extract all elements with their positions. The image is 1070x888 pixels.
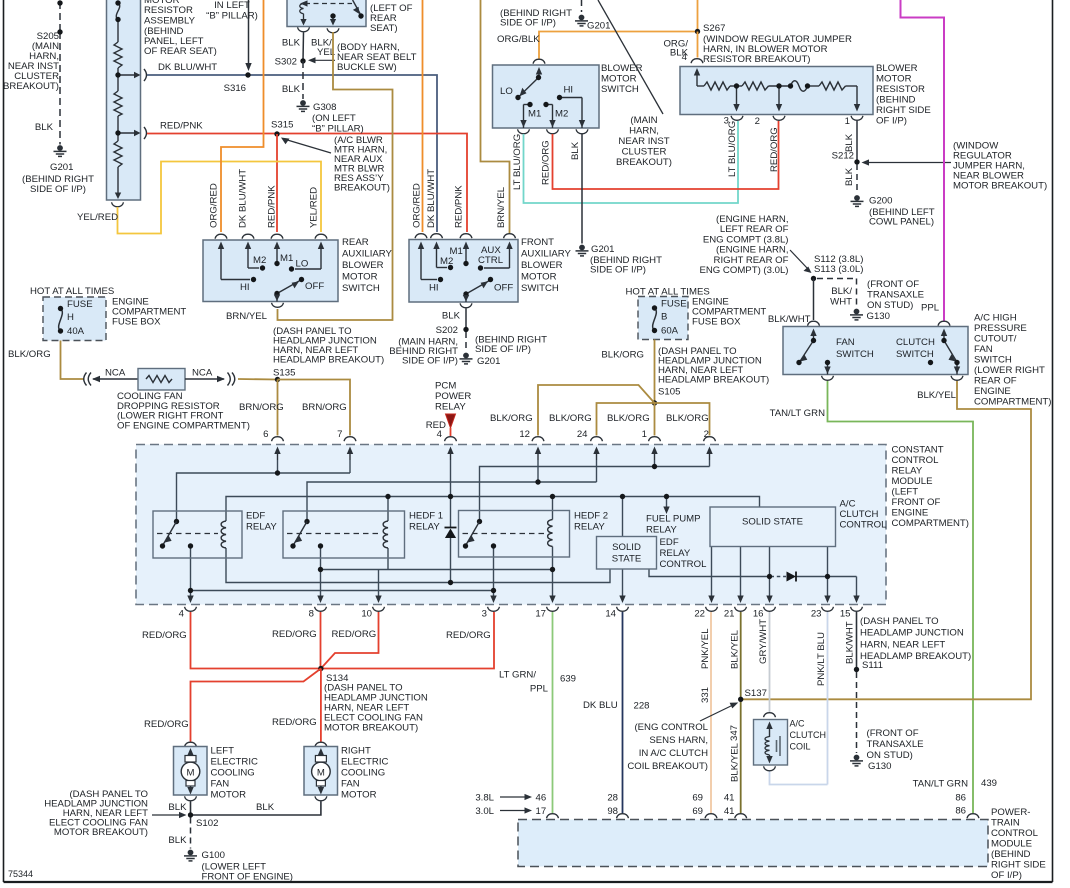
svg-text:BLK/WHT: BLK/WHT: [845, 621, 856, 664]
aux blower relay internals: [305, 3, 352, 5]
wire ORG/RED to front switch: [422, 0, 424, 232]
svg-text:MOTOR: MOTOR: [211, 790, 247, 801]
svg-text:OF REAR SEAT): OF REAR SEAT): [144, 46, 217, 57]
wire PNK/YEL pin 22 to PCM: [710, 612, 712, 813]
wire BLK dashed to G308: [302, 61, 304, 99]
svg-text:RIGHT SIDE: RIGHT SIDE: [876, 105, 931, 116]
fan switch internals: [801, 334, 958, 375]
svg-text:S202: S202: [436, 325, 458, 336]
svg-text:SWITCH: SWITCH: [521, 283, 559, 294]
svg-text:HEADLAMP JUNCTION: HEADLAMP JUNCTION: [860, 628, 964, 639]
svg-text:G201: G201: [50, 162, 73, 173]
fuse box B (engine compartment fuse box): [638, 297, 688, 340]
svg-text:OFF: OFF: [305, 281, 324, 292]
svg-text:M1: M1: [280, 253, 293, 264]
svg-text:4: 4: [437, 429, 443, 440]
ground G100: [184, 850, 197, 861]
front switch bottom cup: [460, 303, 472, 308]
wire BLK/WHT S112 to fan switch: [813, 279, 815, 321]
svg-text:BLK: BLK: [168, 835, 187, 846]
wire BLK/YEL BRN/YEL from aux relay to rear switch: [278, 32, 393, 320]
wire RED/ORG pin 8: [320, 612, 322, 669]
constant control relay module CCRM dashed box: [136, 445, 886, 605]
svg-text:ELECTRIC: ELECTRIC: [211, 757, 259, 768]
ground G201 dashed stub top: [581, 0, 583, 12]
svg-text:COMPARTMENT): COMPARTMENT): [974, 397, 1051, 408]
svg-text:46: 46: [536, 793, 547, 804]
svg-text:BLOWER: BLOWER: [342, 260, 384, 271]
front auxiliary blower motor switch box: [409, 240, 518, 303]
svg-text:BLK: BLK: [256, 802, 275, 813]
svg-text:CTRL: CTRL: [478, 255, 504, 266]
svg-text:S137: S137: [745, 688, 767, 699]
svg-text:WHT: WHT: [830, 297, 852, 308]
svg-text:BLK/: BLK/: [831, 286, 852, 297]
svg-text:RELAY: RELAY: [646, 525, 677, 536]
svg-text:S135: S135: [273, 368, 295, 379]
svg-text:STATE: STATE: [612, 554, 642, 565]
svg-text:YEL/RED: YEL/RED: [309, 187, 320, 228]
svg-text:17: 17: [536, 806, 547, 817]
svg-text:HEADLAMP BREAKOUT): HEADLAMP BREAKOUT): [658, 375, 769, 386]
rear switch bottom cup: [272, 303, 284, 308]
svg-text:HOT AT ALL TIMES: HOT AT ALL TIMES: [30, 286, 114, 297]
svg-text:OF ENGINE COMPARTMENT): OF ENGINE COMPARTMENT): [117, 420, 250, 431]
svg-text:PPL: PPL: [530, 684, 549, 695]
wire RED/PNK drop to rear switch: [276, 134, 278, 232]
svg-text:CONTROL: CONTROL: [840, 520, 888, 531]
svg-text:RELAY: RELAY: [892, 466, 923, 477]
svg-text:86: 86: [955, 793, 966, 804]
small solid state box EDF relay control: [597, 537, 657, 570]
svg-text:RELAY: RELAY: [246, 522, 277, 533]
svg-text:A/C: A/C: [840, 499, 856, 510]
svg-text:M1: M1: [528, 109, 541, 120]
node S267: [695, 29, 700, 34]
wire BLK/ORG to pin 24: [597, 403, 655, 436]
svg-text:A/C HIGH: A/C HIGH: [974, 313, 1017, 324]
svg-text:LT GRN/: LT GRN/: [499, 670, 536, 681]
svg-text:LT BLU/ORG: LT BLU/ORG: [727, 121, 738, 177]
svg-text:TRANSAXLE: TRANSAXLE: [867, 739, 924, 750]
svg-text:SIDE OF I/P): SIDE OF I/P): [500, 18, 556, 29]
svg-text:S267: S267: [703, 23, 725, 34]
svg-text:MOTOR BREAKOUT): MOTOR BREAKOUT): [324, 723, 418, 734]
svg-text:SIDE OF I/P): SIDE OF I/P): [590, 265, 646, 276]
svg-text:ASSEMBLY: ASSEMBLY: [144, 16, 196, 27]
wire diode branch: [450, 497, 452, 528]
svg-text:CONTROL: CONTROL: [660, 559, 708, 570]
wire HEDF1 coil riser: [387, 497, 389, 522]
border frame bottom edge: [4, 881, 1053, 883]
fuel pump relay arrow: [663, 507, 669, 515]
svg-text:RELAY: RELAY: [409, 522, 440, 533]
svg-text:BLK/ORG: BLK/ORG: [8, 349, 51, 360]
leader arrow to S102: [152, 814, 182, 816]
svg-text:LO: LO: [296, 259, 309, 270]
svg-text:EDF: EDF: [246, 511, 265, 522]
svg-text:PPL: PPL: [921, 303, 940, 314]
svg-text:YEL/RED: YEL/RED: [77, 212, 118, 223]
svg-text:3.8L: 3.8L: [475, 793, 494, 804]
svg-text:“B” PILLAR): “B” PILLAR): [312, 124, 364, 135]
svg-text:FAN: FAN: [341, 779, 360, 790]
ground G130 (bottom): [850, 755, 863, 766]
svg-text:86: 86: [955, 806, 966, 817]
wire HEDF2 coil riser: [552, 497, 554, 520]
svg-text:REAR: REAR: [342, 237, 369, 248]
svg-text:BUCKLE SW): BUCKLE SW): [337, 62, 397, 73]
wire RED/PNK: [147, 134, 467, 233]
svg-text:FUSE: FUSE: [67, 299, 93, 310]
svg-text:BLK/YEL: BLK/YEL: [730, 742, 741, 782]
svg-text:MODULE: MODULE: [991, 839, 1032, 850]
svg-text:HEADLAMP BREAKOUT): HEADLAMP BREAKOUT): [860, 651, 971, 662]
fuse H symbol: [59, 309, 63, 332]
svg-text:(ON LEFT: (ON LEFT: [312, 113, 356, 124]
wire BLK/ORG to pin 2: [655, 403, 710, 436]
svg-text:228: 228: [634, 701, 650, 712]
svg-text:BLK/ORG: BLK/ORG: [549, 413, 592, 424]
wire DK BLU pin 14 to PCM: [622, 612, 624, 813]
wire dashed to G130: [856, 672, 858, 753]
svg-text:HARN,: HARN,: [629, 126, 659, 137]
svg-text:IN A/C CLUTCH: IN A/C CLUTCH: [639, 748, 708, 759]
svg-text:ELECTRIC: ELECTRIC: [341, 757, 389, 768]
fan switch top cups: [808, 321, 820, 326]
motor resistor assembly box: [107, 0, 141, 200]
svg-text:BLK/ORG: BLK/ORG: [607, 413, 650, 424]
wire S205 harness dashed BLK: [59, 2, 61, 145]
svg-text:CLUSTER: CLUSTER: [622, 147, 667, 158]
wire BLK/ORG to pin 1: [654, 403, 656, 436]
svg-text:MOTOR BREAKOUT): MOTOR BREAKOUT): [953, 181, 1047, 192]
svg-text:BREAKOUT): BREAKOUT): [616, 157, 672, 168]
svg-text:BLK: BLK: [282, 84, 301, 95]
svg-text:(LOWER RIGHT: (LOWER RIGHT: [974, 365, 1045, 376]
svg-text:41: 41: [724, 806, 735, 817]
svg-text:COIL BREAKOUT): COIL BREAKOUT): [627, 761, 708, 772]
wire to S135: [238, 378, 278, 381]
wire EDF output to pin 4: [190, 546, 192, 598]
svg-text:HEDF 2: HEDF 2: [574, 511, 608, 522]
wire GRY/WHT pin 16 to clutch coil: [769, 612, 771, 712]
svg-text:CONTROL: CONTROL: [991, 828, 1039, 839]
ground G200: [851, 195, 864, 206]
svg-text:RED/ORG: RED/ORG: [332, 629, 377, 640]
svg-text:347: 347: [729, 725, 740, 741]
svg-text:COOLING: COOLING: [211, 768, 255, 779]
inline connector ((: [84, 373, 91, 386]
svg-text:RED/ORG: RED/ORG: [142, 630, 187, 641]
svg-text:EDF: EDF: [660, 537, 679, 548]
wire BRN/YEL to front aux ctrl: [481, 0, 510, 233]
svg-text:G100: G100: [202, 850, 225, 861]
svg-text:PCM: PCM: [435, 381, 456, 392]
svg-text:OF I/P): OF I/P): [876, 116, 907, 127]
svg-text:(LEFT: (LEFT: [892, 487, 919, 498]
wire TAN/LT GRN from fan switch: [828, 381, 974, 813]
svg-text:3.0L: 3.0L: [475, 806, 494, 817]
wire PNK/LT BLU pin 23: [827, 612, 829, 785]
wire small solid state to diode bus: [649, 569, 770, 577]
svg-text:COWL PANEL): COWL PANEL): [869, 217, 934, 228]
inline connector )): [228, 373, 235, 386]
svg-text:AUXILIARY: AUXILIARY: [521, 249, 572, 260]
svg-text:PNK/LT BLU: PNK/LT BLU: [816, 632, 827, 686]
svg-text:GRY/WHT: GRY/WHT: [758, 619, 769, 664]
svg-text:69: 69: [692, 806, 703, 817]
svg-text:7: 7: [337, 429, 342, 440]
wire BLK/WHT pin 15 to S111: [856, 612, 858, 668]
svg-text:MODULE: MODULE: [892, 476, 933, 487]
wire RED/ORG S134 to right motor: [320, 669, 322, 742]
svg-text:ORG/RED: ORG/RED: [209, 183, 220, 228]
svg-text:SWITCH: SWITCH: [974, 355, 1012, 366]
svg-text:BLK/YEL: BLK/YEL: [917, 390, 957, 401]
svg-text:POWER: POWER: [435, 391, 471, 402]
rear switch internals: [221, 247, 321, 302]
wire bus pin8 pin10 HEDF2 coil: [321, 569, 553, 571]
svg-text:8: 8: [309, 609, 314, 620]
svg-text:41: 41: [724, 793, 735, 804]
svg-text:RESISTOR BREAKOUT): RESISTOR BREAKOUT): [703, 54, 811, 65]
HEDF2 relay box: [459, 511, 570, 558]
svg-text:M: M: [317, 768, 325, 779]
wire BLK dashed to G100: [190, 818, 192, 849]
wire ORG/BLK S267 to resistor pin 4: [697, 32, 699, 58]
svg-text:BLK/ORG: BLK/ORG: [666, 413, 709, 424]
svg-text:BLK: BLK: [168, 802, 187, 813]
blower motor switch box: [493, 65, 600, 128]
svg-text:BLK: BLK: [844, 133, 855, 152]
node S105: [652, 400, 657, 405]
HEDF1 relay box: [283, 511, 405, 558]
svg-text:G130: G130: [867, 311, 890, 322]
svg-text:ON STUD): ON STUD): [867, 300, 913, 311]
svg-text:HARN, NEAR LEFT: HARN, NEAR LEFT: [860, 639, 945, 650]
svg-text:MOTOR BREAKOUT): MOTOR BREAKOUT): [54, 827, 148, 838]
svg-text:17: 17: [535, 609, 546, 620]
leader to S302: [312, 59, 335, 61]
wire HEDF1 output to pin 8: [320, 546, 322, 598]
svg-text:CLUTCH: CLUTCH: [896, 337, 935, 348]
svg-text:G200: G200: [869, 196, 892, 207]
svg-text:DK BLU/WHT: DK BLU/WHT: [238, 169, 249, 228]
svg-text:RED/ORG: RED/ORG: [446, 630, 491, 641]
svg-text:MOTOR: MOTOR: [521, 272, 557, 283]
svg-text:23: 23: [811, 609, 822, 620]
wire pin 10 drop: [378, 570, 380, 599]
wire RED/ORG resistor pin2: [553, 121, 779, 189]
svg-text:CLUTCH: CLUTCH: [840, 509, 879, 520]
wire BLK to S302: [302, 33, 305, 62]
svg-text:4: 4: [179, 609, 185, 620]
svg-text:OFF: OFF: [494, 283, 513, 294]
svg-text:24: 24: [577, 429, 588, 440]
svg-text:TAN/LT GRN: TAN/LT GRN: [770, 408, 826, 419]
svg-text:BREAKOUT): BREAKOUT): [3, 81, 59, 92]
rear switch pin cups: [215, 234, 227, 239]
node S137: [738, 697, 743, 702]
svg-text:S105: S105: [658, 387, 680, 398]
wire pins 1 2 bus to HEDF2 pivot: [654, 460, 656, 467]
svg-text:BLK/YEL: BLK/YEL: [730, 629, 741, 669]
svg-text:DK BLU: DK BLU: [583, 700, 618, 711]
svg-text:SWITCH: SWITCH: [896, 349, 934, 360]
svg-text:FAN: FAN: [974, 344, 993, 355]
node S202: [463, 327, 468, 332]
wire BLK/YEL from clutch switch to S137: [741, 381, 1031, 699]
svg-text:ENGINE: ENGINE: [892, 508, 929, 519]
svg-text:ORG/RED: ORG/RED: [412, 183, 423, 228]
svg-text:G201: G201: [587, 21, 610, 32]
svg-text:6: 6: [263, 429, 268, 440]
svg-text:BLOWER: BLOWER: [521, 260, 563, 271]
svg-text:PNK/YEL: PNK/YEL: [700, 628, 711, 669]
leader to S212: [866, 162, 951, 164]
blower motor resistor internals: [697, 73, 857, 106]
svg-text:BLK: BLK: [282, 38, 301, 49]
svg-text:NCA: NCA: [105, 368, 126, 379]
rear auxiliary blower motor switch box: [203, 240, 338, 302]
wire pin 15 branch: [828, 576, 857, 578]
svg-text:S315: S315: [271, 120, 293, 131]
svg-text:15: 15: [840, 609, 851, 620]
blower motor resistor box: [680, 67, 873, 115]
wire DK BLU/WHT: [147, 75, 437, 232]
svg-text:BRN/ORG: BRN/ORG: [302, 402, 347, 413]
svg-text:BLK/ORG: BLK/ORG: [490, 413, 533, 424]
svg-text:“B” PILLAR): “B” PILLAR): [206, 11, 258, 22]
wire BLK/ORG from fuse H: [61, 341, 85, 380]
svg-text:DK BLU/WHT: DK BLU/WHT: [158, 62, 217, 73]
svg-text:RESISTOR: RESISTOR: [144, 5, 193, 16]
powertrain control module box: [518, 820, 988, 867]
svg-text:ON STUD): ON STUD): [867, 750, 913, 761]
wire BRN/ORG to pin 6: [277, 380, 279, 436]
svg-text:(MAIN: (MAIN: [630, 115, 657, 126]
ground G201 (behind right side of I/P, left): [54, 145, 67, 156]
svg-text:22: 22: [694, 609, 705, 620]
svg-text:FRONT OF ENGINE): FRONT OF ENGINE): [202, 872, 294, 883]
svg-text:TRAIN: TRAIN: [991, 818, 1020, 829]
svg-text:RED/PNK: RED/PNK: [160, 121, 203, 132]
wire BLK dashed to G201: [465, 332, 467, 352]
svg-text:(FRONT OF: (FRONT OF: [867, 728, 919, 739]
svg-text:FRONT: FRONT: [521, 237, 554, 248]
svg-text:LO: LO: [500, 86, 513, 97]
svg-text:RESISTOR: RESISTOR: [876, 84, 925, 95]
leader to S112: [790, 250, 808, 269]
leader to S137: [700, 705, 734, 722]
svg-text:G308: G308: [313, 102, 336, 113]
wire YEL/RED: [118, 162, 322, 234]
svg-text:BREAKOUT): BREAKOUT): [334, 183, 390, 194]
svg-text:CONSTANT: CONSTANT: [892, 445, 944, 456]
svg-text:SIDE OF I/P): SIDE OF I/P): [30, 184, 86, 195]
svg-text:21: 21: [724, 609, 735, 620]
svg-text:2: 2: [755, 116, 760, 127]
svg-text:331: 331: [700, 687, 711, 703]
svg-text:S302: S302: [275, 57, 297, 68]
wire BLK/YEL pin 21 to PCM: [740, 612, 742, 813]
EDF relay box: [153, 511, 242, 558]
wire PPL magenta: [901, 0, 945, 321]
wire pins 6 7 bus to EDF pivot: [277, 460, 279, 473]
svg-text:NCA: NCA: [192, 368, 213, 379]
CCRM bottom pin cups and labels: [185, 607, 197, 612]
aux blower relay box (left of rear seat): [287, 0, 366, 27]
svg-text:CUTOUT/: CUTOUT/: [974, 334, 1017, 345]
ground G308: [297, 100, 310, 111]
svg-text:S316: S316: [224, 83, 246, 94]
TAN/LT GRN labels at PCM: [967, 814, 979, 819]
svg-text:HI: HI: [564, 85, 574, 96]
svg-text:439: 439: [981, 778, 997, 789]
CCRM junction dots: [275, 470, 280, 475]
svg-text:LT BLU/ORG: LT BLU/ORG: [512, 134, 523, 190]
svg-text:1: 1: [642, 429, 647, 440]
fuse box H (engine compartment fuse box): [43, 297, 106, 341]
svg-text:ORG/BLK: ORG/BLK: [497, 34, 540, 45]
svg-text:HI: HI: [240, 282, 250, 293]
wire BLK right motor to S102: [193, 802, 321, 816]
wire HEDF2 coil bottom to pin 17: [552, 547, 554, 599]
wire LT BLU/ORG teal: [524, 121, 739, 203]
wire RED/ORG pin 4 to S134 bus: [191, 612, 495, 669]
svg-text:OF I/P): OF I/P): [991, 870, 1022, 881]
wire pins 12 24 bus to HEDF1 pivot: [537, 460, 539, 482]
wire RED/ORG S134 to left motor: [191, 669, 321, 742]
svg-text:M: M: [187, 768, 195, 779]
wire from B pillar down to S316: [248, 0, 250, 64]
border frame left edge: [3, 0, 5, 882]
wire HEDF1 coil bottom riser: [387, 548, 389, 570]
svg-text:RELAY: RELAY: [660, 548, 691, 559]
svg-text:IN LEFT: IN LEFT: [214, 0, 250, 11]
svg-text:SWITCH: SWITCH: [342, 283, 380, 294]
svg-text:10: 10: [361, 609, 372, 620]
svg-text:G201: G201: [591, 244, 614, 255]
svg-text:FUEL PUMP: FUEL PUMP: [646, 514, 701, 525]
svg-text:RIGHT SIDE: RIGHT SIDE: [991, 860, 1046, 871]
ground G201 (blower switch): [576, 245, 589, 256]
svg-text:MOTOR: MOTOR: [341, 790, 377, 801]
diode D2 horizontal: [787, 572, 797, 582]
svg-text:G130: G130: [868, 761, 891, 772]
svg-text:BLOWER: BLOWER: [876, 63, 918, 74]
svg-text:SIDE OF I/P): SIDE OF I/P): [402, 356, 458, 367]
svg-text:RED/PNK: RED/PNK: [454, 185, 465, 228]
wire BLK dashed to G200: [856, 164, 858, 194]
svg-text:TRANSAXLE: TRANSAXLE: [867, 290, 924, 301]
svg-text:RED/PNK: RED/PNK: [267, 185, 278, 228]
svg-text:BLK: BLK: [844, 167, 855, 186]
wire BLK left motor to S102: [190, 802, 192, 814]
wire pin14 riser to solid state: [622, 497, 624, 537]
svg-text:M2: M2: [555, 109, 568, 120]
svg-text:69: 69: [692, 793, 703, 804]
svg-text:BLK: BLK: [570, 141, 581, 160]
svg-text:HEDF 1: HEDF 1: [409, 511, 443, 522]
svg-text:RED/ORG: RED/ORG: [541, 140, 552, 185]
svg-text:RELAY: RELAY: [574, 522, 605, 533]
front switch internals: [421, 247, 510, 302]
svg-text:RIGHT: RIGHT: [341, 746, 371, 757]
wire EDF coil ground bus: [226, 548, 610, 583]
left electric cooling fan motor: [185, 742, 197, 747]
